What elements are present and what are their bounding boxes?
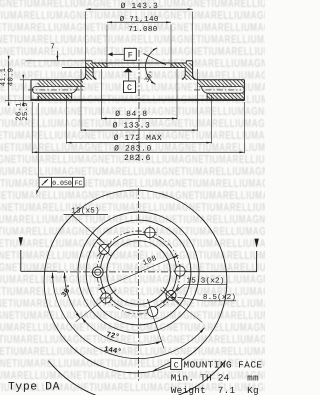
dimension 7 (rim to mounting face) [56,51,58,61]
bore edge right [170,63,172,68]
crossed stepped hole 15.3/8.5 [166,290,176,300]
vent inlet nose left [72,87,78,93]
runout symbol arrow [42,179,48,185]
datum F box and leader [124,48,136,60]
section outline: ring top surface left [31,79,82,81]
section centerline [138,50,140,163]
hat skirt inner wall left [93,68,96,80]
dimension D133.3 [80,69,82,131]
svg-text:Type DA: Type DA [8,382,60,394]
svg-text:MAGNETIUMARELLIUMAGNETIUMARELL: MAGNETIUMARELLIUMAGNETIUMARELLIUMAGNETIU… [0,166,265,178]
svg-text:C: C [174,361,179,370]
svg-text:MAGNETIUMARELLIUMAGNETIUMARELL: MAGNETIUMARELLIUMAGNETIUMARELLIUMAGNETIU… [0,238,265,250]
hub step circle D84.8 [100,234,176,310]
hat plate bottom surface (mounting face) [62,67,185,69]
bolt hole 13mm at 146 deg [99,244,109,254]
runout feature control frame 0.050 FC [39,177,84,187]
leader from frame down to front view [36,187,40,194]
ring bottom surface (full, visible silhouette) [31,98,244,100]
vent channel left: top line [35,86,84,88]
svg-text:0.050: 0.050 [52,180,72,187]
svg-text:FC: FC [74,180,82,187]
svg-text:Ø 133.3: Ø 133.3 [113,122,151,131]
svg-text:282.6: 282.6 [124,154,151,163]
bolt hole 13mm at 290 deg [148,306,158,316]
leader from frame up to braking surface [37,103,39,177]
svg-text:MAGNETIUMARELLIUMAGNETIUMARELL: MAGNETIUMARELLIUMAGNETIUMARELLIUMAGNETIU… [0,310,265,322]
dimension D172 MAX [66,95,68,144]
level reference line rim top [26,60,86,62]
svg-text:7: 7 [50,44,55,52]
front view vertical centerline [138,188,140,382]
X cross on mirrored hole at 146 deg [97,242,111,256]
svg-text:40.9: 40.9 [8,68,16,87]
hat skirt hatch left [82,68,97,80]
friction ring right: bottom plate hatch [207,93,244,99]
30 degree angle indicator [146,48,158,85]
svg-text:MAGNETIUMARELLIUMAGNETIUMARELL: MAGNETIUMARELLIUMAGNETIUMARELLIUMAGNETIU… [0,250,265,262]
ray through crossed hole at -38 deg [161,290,203,323]
hat skirt outer wall right [193,61,197,80]
svg-text:Ø 143.3: Ø 143.3 [121,2,159,11]
svg-text:71.080: 71.080 [128,25,158,34]
vent inlet nose right [202,87,208,93]
center bore circle [107,241,171,305]
dimension D84.8 [101,69,103,120]
ray through bolt hole at 218 deg [76,290,117,322]
svg-text:MAGNETIUMARELLIUMAGNETIUMARELL: MAGNETIUMARELLIUMAGNETIUMARELLIUMAGNETIU… [0,346,265,358]
svg-text:Min. TH 24 mm: Min. TH 24 mm [171,372,259,383]
dimension D143.3 [86,8,193,10]
144 degree arc dimension [52,273,204,359]
section outline: ring top surface right [197,79,245,81]
svg-text:Ø 71,140: Ø 71,140 [120,15,159,24]
friction ring right: top plate hatch [197,80,244,87]
hat step circle D133.3 [86,220,191,325]
datum C box and leader [124,81,136,93]
hat plate hatch right [171,63,193,68]
svg-text:MAGNETIUMARELLIUMAGNETIUMARELL: MAGNETIUMARELLIUMAGNETIUMARELLIUMAGNETIU… [0,34,265,46]
bolt hole 13mm at 2 deg [175,266,185,276]
ring OD edge left [30,80,32,101]
bore edge left [106,63,108,68]
ray through bolt hole at 290 deg [147,299,164,348]
friction ring left: bottom plate hatch [38,93,72,99]
svg-text:Ø 84.8: Ø 84.8 [115,110,147,119]
svg-text:Weight 7.1 Kg: Weight 7.1 Kg [171,385,259,395]
vent channel right: OD rounded end [241,87,244,94]
ring OD edge right [243,80,245,101]
svg-text:MAGNETIUMARELLIUMAGNETIUMARELL: MAGNETIUMARELLIUMAGNETIUMARELLIUMAGNETIU… [0,226,265,238]
hat skirt hatch right [182,68,197,80]
vent channel right: bottom line [207,92,241,94]
svg-text:25.9: 25.9 [22,102,30,121]
svg-text:Ø 172 MAX: Ø 172 MAX [114,134,163,143]
vent channel right: top line [200,86,242,88]
vane circle [78,212,199,333]
hat rim right [186,60,192,62]
dimension D71.140/71.080 [107,21,171,23]
svg-text:MOUNTING FACE: MOUNTING FACE [184,359,263,370]
vent channel left: OD rounded end [32,87,35,94]
svg-text:13(x5): 13(x5) [71,206,100,215]
disc OD circle (clipped at bottom) [48,361,225,395]
dimension D283.0 / 282.6 [31,102,33,153]
svg-text:MAGNETIUMARELLIUMAGNETIUMARELL: MAGNETIUMARELLIUMAGNETIUMARELLIUMAGNETIU… [0,322,265,334]
72 degree arc dimension [82,318,162,345]
36 degree arc dimension [65,273,81,319]
hat skirt inner wall right [182,68,185,80]
hat plate top surface [92,62,186,64]
hat plate hatch left [86,63,107,68]
braking band inner circle [44,190,227,373]
dimension 41.1/40.9 (total height) [8,61,10,101]
hat skirt outer wall left [82,61,86,80]
dimension 108 diagonal [99,255,179,290]
friction ring left: top plate hatch [38,80,84,87]
section cutting arrow right [256,251,258,272]
vent channel left: bottom line [35,92,71,94]
svg-text:MAGNETIUMARELLIUMAGNETIUMARELL: MAGNETIUMARELLIUMAGNETIUMARELLIUMAGNETIU… [0,190,265,202]
leader from C mounting face box [153,362,172,372]
section cutting arrow left [20,250,22,271]
svg-text:C: C [127,83,132,93]
bolt hole 13mm at 218 deg [101,293,111,303]
front view horizontal centerline / cutting plane [21,270,57,272]
bolt hole 13mm at 74 deg [145,228,155,238]
datum C box (mounting face note) [171,358,182,369]
vent centerline right [194,89,241,91]
svg-text:F: F [128,51,133,61]
svg-text:Ø 283.0: Ø 283.0 [114,144,152,153]
bolt circle (BCD 108) [97,231,180,314]
dimension 26.1/25.9 (ring thickness) [20,79,31,81]
pin hole 8.5 at 180 deg (double circle) [92,267,103,278]
hat rim left [86,60,92,62]
svg-text:MAGNETIUMARELLIUMAGNETIUMARELL: MAGNETIUMARELLIUMAGNETIUMARELLIUMAGNETIU… [0,334,265,346]
vent centerline left [28,89,84,91]
